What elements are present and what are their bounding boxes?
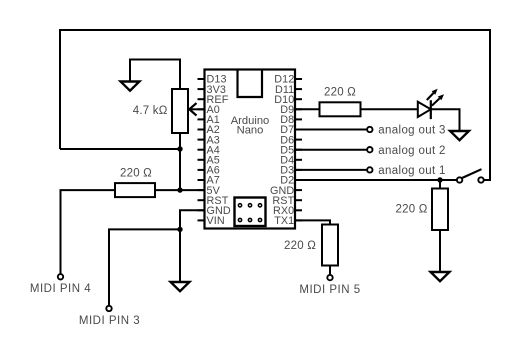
potentiometer 4.7 kOhm body (172, 89, 188, 133)
svg-text:Nano: Nano (237, 125, 264, 137)
svg-text:220 Ω: 220 Ω (284, 240, 316, 252)
pin D10 (right 3) (274, 94, 302, 106)
wire: pot top terminal to ground (130, 60, 180, 90)
wire: D2 to switch (295, 179, 457, 181)
wire: pot bottom to 5V row (179, 133, 181, 190)
wire: D3 to analog out terminal (295, 169, 366, 171)
switch S1 (457, 169, 484, 183)
svg-text:analog out 2: analog out 2 (378, 145, 446, 157)
LED D1 (418, 89, 444, 119)
pin VIN (left 15) (198, 215, 225, 227)
pin D4 (right 9) (280, 155, 302, 167)
pin D8 (right 5) (280, 114, 302, 126)
wire: resistor to LED anode (361, 108, 418, 110)
pin D7 (right 6) (280, 124, 302, 136)
svg-text:MIDI PIN 5: MIDI PIN 5 (299, 284, 360, 296)
pin A4 (left 8) (198, 144, 220, 156)
wire: GND junction to ground symbol (179, 229, 181, 282)
pin A0 (left 4) (198, 104, 220, 116)
pin A5 (left 9) (198, 155, 220, 167)
svg-text:TX1: TX1 (274, 215, 294, 227)
ground symbol (pulldown) (431, 272, 450, 281)
pin D12 (right 1) (274, 74, 302, 86)
junction: pot drop / 5V row (177, 187, 182, 192)
svg-text:220 Ω: 220 Ω (120, 167, 152, 179)
svg-text:MIDI PIN 3: MIDI PIN 3 (79, 315, 140, 327)
svg-text:220 Ω: 220 Ω (324, 87, 356, 99)
wire: 5V bus top/left/right loop (60, 30, 490, 180)
terminal: analog out 2 (367, 147, 372, 152)
pin A7 (left 11) (198, 175, 220, 187)
ground symbol (pot top) (121, 82, 140, 91)
wire: LED cathode to ground (431, 109, 460, 131)
svg-text:MIDI PIN 4: MIDI PIN 4 (30, 283, 91, 295)
wire: 5V bus to potentiometer bottom (60, 148, 180, 150)
wire: D9 to resistor (295, 108, 320, 110)
svg-text:220 Ω: 220 Ω (396, 203, 428, 215)
pin A2 (left 6) (198, 124, 220, 136)
wire: MIDI PIN 4 riser and 5V row left (61, 190, 116, 274)
wire: resistor to ground (439, 230, 441, 272)
wire: D5 to analog out terminal (295, 149, 366, 151)
resistor 220 Ohm (pulldown) (432, 189, 448, 231)
terminal: MIDI PIN 3 (106, 306, 111, 311)
pin RST (left 13) (198, 195, 229, 207)
wire: resistor to MIDI PIN 5 terminal (329, 266, 331, 275)
terminal: analog out 1 (367, 167, 372, 172)
ground symbol (GND net) (171, 282, 190, 291)
ICSP header (235, 198, 266, 227)
pin D5 (right 8) (280, 144, 302, 156)
ground symbol (LED) (450, 131, 469, 140)
wire: TX1 to resistor (295, 220, 330, 224)
pin 3V3 (left 2) (198, 84, 227, 96)
pin GND (left 14) (198, 205, 231, 217)
pin A3 (left 7) (198, 134, 220, 146)
pin TX1 (right 15) (274, 215, 302, 227)
pin RX0 (right 14) (273, 205, 302, 217)
wire: GND junction to MIDI PIN 3 (109, 229, 180, 305)
resistor 220 Ohm (LED series) (320, 102, 361, 116)
resistor 220 Ohm (MIDI PIN 5) (322, 225, 338, 266)
terminal: analog out 3 (367, 127, 372, 132)
pin D6 (right 7) (280, 134, 302, 146)
pin D11 (right 2) (275, 84, 302, 96)
terminal: MIDI PIN 5 (327, 275, 332, 280)
pin A6 (left 10) (198, 165, 220, 177)
resistor 220 Ohm (5V series) (115, 183, 155, 197)
pin REF (left 3) (198, 94, 229, 106)
pin 5V (left 12) (198, 185, 221, 197)
pin D9 (right 4) (280, 104, 302, 116)
svg-text:4.7 kΩ: 4.7 kΩ (133, 105, 168, 117)
wire: junction down to resistor (439, 180, 441, 189)
pin D2 (right 11) (280, 175, 302, 187)
junction: pot bottom / 5V bus (177, 146, 182, 151)
junction: GND net (177, 227, 182, 232)
pin D3 (right 10) (280, 165, 302, 177)
pin D13 (left 1) (198, 74, 227, 86)
wire: resistor to 5V pin (155, 189, 205, 191)
terminal: MIDI PIN 4 (58, 274, 63, 279)
junction: D2 / resistor tap (437, 177, 442, 182)
pin GND (right 12) (270, 185, 302, 197)
wire: GND pin to junction (180, 210, 205, 229)
svg-text:analog out 3: analog out 3 (378, 125, 446, 137)
wire: pot wiper to A0 (arrow) (190, 108, 205, 110)
op-amp/IC U1: Arduino Nano body (205, 70, 296, 229)
svg-text:VIN: VIN (207, 215, 225, 227)
wire: D7 to analog out terminal (295, 129, 366, 131)
Arduino Nano USB notch (238, 71, 263, 98)
svg-text:analog out 1: analog out 1 (378, 165, 446, 177)
pin RST (right 13) (272, 195, 302, 207)
pin A1 (left 5) (198, 114, 220, 126)
